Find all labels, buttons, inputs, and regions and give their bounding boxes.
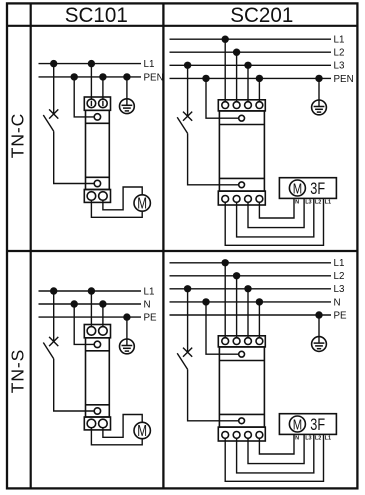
node L1-terminal junction (2b) [222,259,229,266]
ground symbol E1a [120,99,135,114]
wire L3 to terminal (1b) [247,65,249,101]
motor M1a [134,195,150,213]
SPD device SC201 (1b) top terminal block [218,100,265,111]
wire L1 to terminal (2b) [224,263,226,338]
pin label N of motor box (2b) [295,436,299,442]
pin label L1 of motor box (2b) [325,436,331,442]
wire switch to coil A2 (2b) [188,369,239,420]
wire bus PE (2b) [170,314,332,316]
svg-text:L2: L2 [334,48,345,59]
label L1 (1b) [334,35,345,46]
label L1 (2a) [144,286,155,297]
node PEN-ground junction (1b) [315,75,322,82]
svg-text:L3: L3 [305,200,311,206]
label L2 (2b) [334,271,345,282]
row label TN-S [8,349,28,393]
svg-text:L1: L1 [144,59,155,70]
ground symbol E2a [120,339,135,354]
wire terminal to motor bottom (1a) [91,200,142,217]
label L3 (2b) [334,284,345,295]
node L3-terminal junction (1b) [244,62,251,69]
wire terminal to motor top (1a) [103,187,142,210]
switch Q2b [177,289,192,370]
svg-text:PEN: PEN [334,74,354,85]
svg-text:L1: L1 [334,35,345,46]
wire device terminal to motor L2 (1b) [237,198,314,237]
switch Q1a [43,64,58,132]
motor M2a [134,422,150,440]
wire device terminal to motor L1 (2b) [225,434,323,481]
header label SC101 [65,3,128,27]
label PE (2b) [334,310,348,321]
svg-text:N: N [295,200,299,206]
node L3-switch junction (2b) [184,285,191,292]
svg-text:M: M [137,196,147,213]
node L1-switch junction (1a) [50,60,57,67]
wire L2 to terminal (2b) [236,276,238,338]
pin contact A1 indicator (1a) [86,110,110,189]
SPD device SC201 (1b) body with coil contacts [219,111,264,191]
svg-text:N: N [144,299,151,310]
SPD device SC201 (2b) top terminal block [218,336,265,347]
SPD device SC201 (2b) bottom terminal block [218,427,265,441]
SPD device SC101 (2a) top terminal block [84,325,110,338]
wire N to coil A1 (2b) [206,302,239,354]
node N-terminal junction (2a) [99,300,106,307]
node PEN-ground junction (1a) [123,73,130,80]
wire device terminal to motor N (2b) [259,434,294,454]
SPD device SC201 (1b) bottom terminal block [218,191,265,205]
label PEN (1b) [334,74,354,85]
wire terminal to motor top (2a) [103,415,142,438]
wire PEN to coil A1 (1b) [206,78,239,118]
svg-text:L1: L1 [325,200,331,206]
pin label L2 of motor box (2b) [315,436,321,442]
svg-text:L2: L2 [334,271,345,282]
svg-text:L1: L1 [144,286,155,297]
wire bus L3 (2b) [170,288,332,290]
wire bus L2 (2b) [170,275,332,277]
node L1-terminal junction (1a) [88,60,95,67]
wire device terminal to motor L2 (2b) [237,434,314,473]
wire device terminal to motor L3 (2b) [248,434,304,463]
label PE (2a) [144,313,158,324]
svg-text:M: M [293,416,302,433]
wire PEN to coil A1 (1a) [74,77,94,117]
node L1-switch junction (2a) [50,287,57,294]
motor unit box M1b 3F [279,178,336,199]
wire L1 to terminal 1 (2a) [90,291,92,327]
wire bus L1 (2b) [170,262,332,264]
SPD device SC101 (1a) top terminal block [84,97,110,110]
wire switch to coil A2 (1a) [54,131,95,183]
pin contact A1 indicator (2a) [86,338,110,417]
svg-text:PEN: PEN [144,72,164,83]
node PE-ground junction (2b) [315,311,322,318]
label L2 (1b) [334,48,345,59]
wire N to coil A1 (2a) [74,304,94,344]
wire bus L1 (1a) [39,63,142,65]
wire bus N (2a) [39,303,142,305]
svg-text:L1: L1 [325,436,331,442]
node PEN-coil junction (1b) [202,75,209,82]
wire bus L1 (1b) [170,38,332,40]
pin label L2 of motor box (1b) [315,200,321,206]
node L3-switch junction (1b) [184,62,191,69]
svg-text:L2: L2 [315,200,321,206]
wire device terminal to motor L3 (1b) [248,198,304,227]
SPD device SC201 (2b) body with coil contacts [219,347,264,427]
wire L1 to terminal 1 (1a) [90,64,92,100]
node PEN-terminal junction (1a) [99,73,106,80]
wire device terminal to motor N (1b) [259,198,294,218]
wire N to terminal 2 (2a) [102,304,104,327]
node L2-terminal junction (2b) [233,272,240,279]
label L1 (2b) [334,258,345,269]
svg-text:TN-S: TN-S [8,349,28,393]
svg-text:3F: 3F [310,179,325,198]
wire E2b PE drop [318,315,320,337]
wire bus PEN (1a) [39,76,142,78]
svg-text:SC101: SC101 [65,3,128,27]
node L3-terminal junction (2b) [244,285,251,292]
label L3 (1b) [334,61,345,72]
wire device terminal to motor L1 (1b) [225,198,323,245]
svg-text:L3: L3 [334,61,345,72]
svg-text:TN-C: TN-C [8,113,28,158]
wire bus PE (2a) [39,316,142,318]
svg-text:N: N [295,436,299,442]
switch Q1b [177,65,192,133]
label L1 (1a) [144,59,155,70]
wire E2a PE drop [126,317,128,339]
ground symbol E2b [312,337,327,352]
wire E1a PE drop [126,77,128,99]
node L2-terminal junction (1b) [233,49,240,56]
node N-coil junction (2b) [202,298,209,305]
SPD device SC101 (1a) bottom terminal block [84,190,110,203]
wire PEN to terminal (1b) [258,78,260,101]
wire L1 to terminal (1b) [224,39,226,101]
wire bus N (2b) [170,301,332,303]
node N-coil junction (2a) [71,300,78,307]
svg-text:L3: L3 [305,436,311,442]
wire L2 to terminal (1b) [236,52,238,101]
svg-text:L2: L2 [315,436,321,442]
row label TN-C [8,113,28,158]
node PEN-coil junction (1a) [71,73,78,80]
wire L3 to terminal (2b) [247,289,249,338]
svg-text:PE: PE [144,313,158,324]
header label SC201 [230,3,293,27]
svg-text:PE: PE [334,310,348,321]
wire switch to coil A2 (1b) [188,133,239,184]
node PEN-terminal junction (1b) [256,75,263,82]
svg-text:3F: 3F [310,415,325,434]
motor unit box M2b 3F [279,414,336,435]
label N (2b) [334,297,341,308]
svg-text:L3: L3 [334,284,345,295]
node L1-terminal junction (1b) [222,36,229,43]
svg-text:L1: L1 [334,258,345,269]
wire bus L1 (2a) [39,290,142,292]
label N (2a) [144,299,151,310]
svg-text:M: M [293,180,302,197]
wire switch to coil A2 (2a) [54,359,95,411]
node PE-ground junction (2a) [123,313,130,320]
wire E1b PE drop [318,78,320,100]
wire terminal to motor bottom (2a) [91,428,142,445]
node L1-terminal junction (2a) [88,287,95,294]
node N-terminal junction (2b) [256,298,263,305]
ground symbol E1b [312,100,327,115]
svg-text:M: M [137,423,147,440]
SPD device SC101 (2a) bottom terminal block [84,417,110,430]
wire PEN to terminal 2 (1a) [102,77,104,99]
pin label L1 of motor box (1b) [325,200,331,206]
svg-text:SC201: SC201 [230,3,293,27]
pin label L3 of motor box (1b) [305,200,311,206]
label PEN (1a) [144,72,164,83]
switch Q2a [43,291,58,359]
wire bus L3 (1b) [170,64,332,66]
svg-text:N: N [334,297,341,308]
pin label N of motor box (1b) [295,200,299,206]
wire N to terminal (2b) [258,302,260,338]
wire bus L2 (1b) [170,51,332,53]
wire bus PEN (1b) [170,77,332,79]
pin label L3 of motor box (2b) [305,436,311,442]
